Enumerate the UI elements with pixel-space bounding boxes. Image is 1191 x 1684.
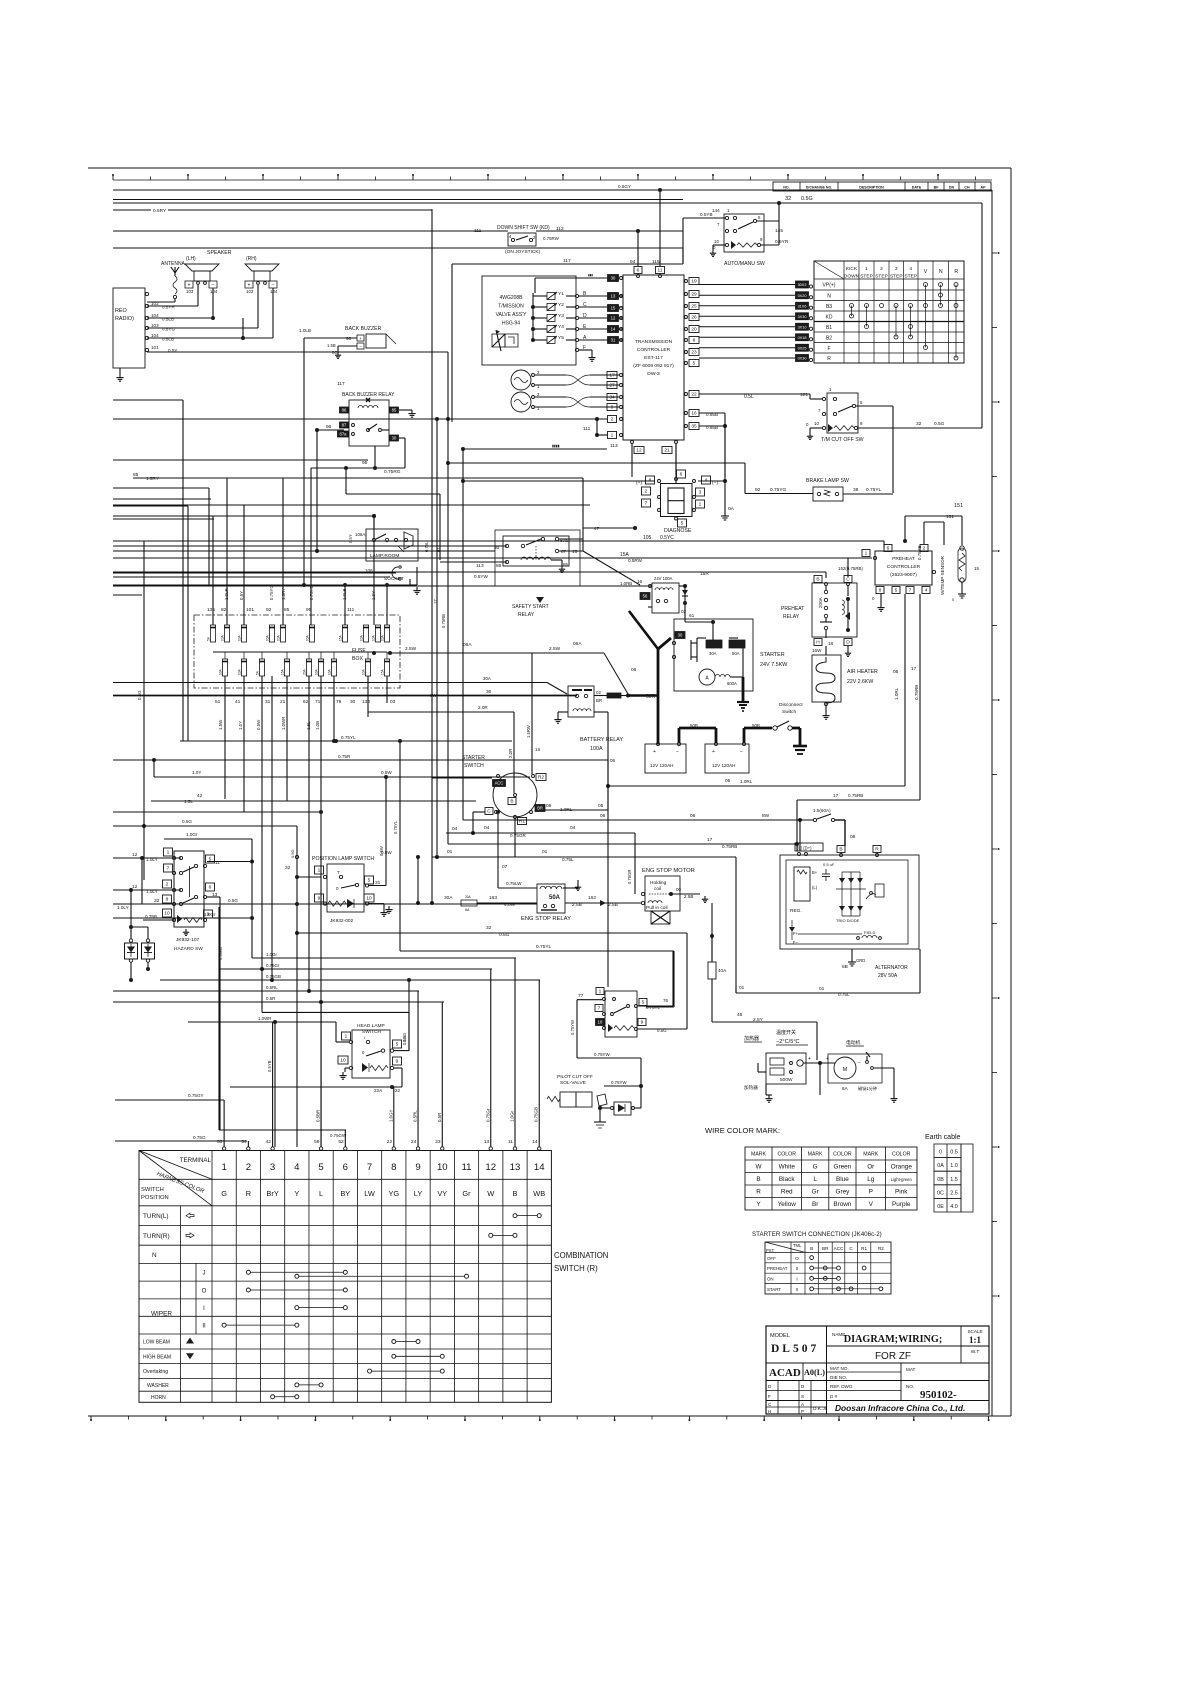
svg-text:T: T xyxy=(337,870,340,875)
speakers xyxy=(147,250,448,419)
svg-text:41: 41 xyxy=(235,699,241,705)
svg-text:07: 07 xyxy=(502,864,508,870)
svg-text:C: C xyxy=(768,1402,772,1407)
svg-text:+: + xyxy=(248,283,251,289)
svg-text:VALVE ASS'Y: VALVE ASS'Y xyxy=(496,312,527,318)
svg-text:24: 24 xyxy=(411,1139,417,1145)
kick down table xyxy=(699,261,964,363)
svg-text:0.75RG: 0.75RG xyxy=(384,469,401,475)
svg-text:34: 34 xyxy=(609,395,615,401)
svg-text:32: 32 xyxy=(285,865,291,871)
svg-text:0.5G: 0.5G xyxy=(499,932,510,938)
svg-text:LOW BEAM: LOW BEAM xyxy=(143,1340,170,1346)
svg-text:−: − xyxy=(858,1060,861,1066)
svg-text:V: V xyxy=(924,269,928,275)
svg-text:R: R xyxy=(954,269,958,275)
svg-text:ACAD: ACAD xyxy=(769,1367,801,1379)
svg-text:163: 163 xyxy=(489,895,497,901)
svg-text:1: 1 xyxy=(865,266,868,272)
svg-text:30A: 30A xyxy=(709,651,717,656)
svg-text:NO.: NO. xyxy=(783,186,789,190)
svg-text:111: 111 xyxy=(347,607,355,613)
svg-text:FUSE: FUSE xyxy=(352,648,366,654)
svg-text:6: 6 xyxy=(887,546,890,552)
svg-text:23: 23 xyxy=(691,350,697,356)
svg-text:0.75RB: 0.75RB xyxy=(848,793,863,798)
svg-text:10A: 10A xyxy=(266,634,270,641)
svg-text:0E: 0E xyxy=(937,1204,944,1210)
svg-text:10A: 10A xyxy=(238,634,242,641)
svg-text:Grey: Grey xyxy=(835,1189,850,1196)
svg-text:1.5L: 1.5L xyxy=(184,799,193,804)
svg-text:01: 01 xyxy=(447,849,453,855)
svg-text:R: R xyxy=(756,1189,761,1196)
svg-text:PREHEAT: PREHEAT xyxy=(767,1266,788,1271)
svg-text:32: 32 xyxy=(785,196,791,202)
svg-text:VP(+): VP(+) xyxy=(823,283,836,289)
svg-text:TML: TML xyxy=(793,1243,802,1248)
svg-text:BY: BY xyxy=(340,1189,350,1198)
svg-text:−2°C/5°C: −2°C/5°C xyxy=(776,1039,800,1045)
svg-text:加热器: 加热器 xyxy=(744,1035,759,1042)
svg-text:6: 6 xyxy=(209,885,212,891)
svg-text:15: 15 xyxy=(974,566,980,571)
svg-text:113: 113 xyxy=(610,443,618,449)
svg-text:2: 2 xyxy=(537,370,540,375)
svg-text:0A: 0A xyxy=(728,506,735,512)
svg-text:HAZARD SW: HAZARD SW xyxy=(174,946,203,952)
svg-text:02: 02 xyxy=(596,690,601,695)
svg-text:05: 05 xyxy=(725,778,731,784)
svg-text:P: P xyxy=(869,1189,873,1196)
svg-text:28V 50A: 28V 50A xyxy=(878,973,898,979)
svg-text:KD: KD xyxy=(826,314,833,320)
fuse box xyxy=(113,585,604,730)
svg-text:DL507: DL507 xyxy=(771,1343,819,1355)
svg-text:2: 2 xyxy=(246,1162,251,1173)
svg-text:1: 1 xyxy=(345,1034,348,1040)
svg-text:30A: 30A xyxy=(465,895,472,899)
svg-text:1.0LB: 1.0LB xyxy=(299,328,311,333)
svg-text:105: 105 xyxy=(643,535,652,541)
svg-text:J: J xyxy=(203,1271,206,1277)
svg-text:H: H xyxy=(816,640,820,646)
svg-text:95: 95 xyxy=(362,460,368,466)
svg-text:152(0.75RB): 152(0.75RB) xyxy=(838,566,863,571)
svg-text:22A: 22A xyxy=(374,1088,383,1093)
svg-text:10: 10 xyxy=(366,896,372,902)
svg-text:5: 5 xyxy=(693,361,696,367)
svg-text:VY: VY xyxy=(437,1189,447,1198)
svg-text:05: 05 xyxy=(546,803,552,809)
svg-text:Pink: Pink xyxy=(895,1189,908,1196)
svg-text:0.75YG: 0.75YG xyxy=(269,585,274,600)
svg-text:KICK: KICK xyxy=(846,266,858,272)
svg-text:D: D xyxy=(768,1384,772,1389)
eng stop motor xyxy=(627,833,708,924)
svg-text:6: 6 xyxy=(637,268,640,274)
svg-text:117: 117 xyxy=(563,258,571,264)
svg-text:18: 18 xyxy=(828,641,834,646)
svg-text:2: 2 xyxy=(611,417,614,423)
svg-text:DESCRIPTION: DESCRIPTION xyxy=(859,186,884,190)
svg-text:0.5G: 0.5G xyxy=(801,196,813,202)
svg-text:2.5W: 2.5W xyxy=(549,646,561,652)
svg-text:BrY: BrY xyxy=(266,1189,278,1198)
svg-text:BACK BUZZER RELAY: BACK BUZZER RELAY xyxy=(342,392,395,398)
svg-text:20A: 20A xyxy=(303,668,307,675)
svg-text:3: 3 xyxy=(270,1162,275,1173)
svg-text:10: 10 xyxy=(340,1058,346,1064)
svg-text:0.5LB: 0.5LB xyxy=(162,337,174,342)
svg-text:1.5(60A): 1.5(60A) xyxy=(813,808,831,813)
svg-text:0X30: 0X30 xyxy=(798,357,807,361)
svg-text:(LH): (LH) xyxy=(186,256,196,262)
svg-text:STEP: STEP xyxy=(860,274,873,280)
svg-text:2: 2 xyxy=(533,235,536,240)
svg-text:12: 12 xyxy=(132,852,138,858)
svg-text:40A: 40A xyxy=(718,968,727,973)
svg-text:N: N xyxy=(827,293,831,299)
svg-text:F: F xyxy=(827,346,830,352)
svg-text:RELAY: RELAY xyxy=(518,612,535,618)
svg-text:II: II xyxy=(202,1323,206,1329)
svg-text:EST-117: EST-117 xyxy=(644,355,663,361)
svg-text:5: 5 xyxy=(758,215,761,220)
svg-text:9: 9 xyxy=(396,1059,399,1065)
svg-text:0.5G: 0.5G xyxy=(934,421,945,427)
svg-text:1.0WR: 1.0WR xyxy=(258,1016,271,1021)
svg-text:DIE NO.: DIE NO. xyxy=(830,1375,847,1380)
svg-text:51: 51 xyxy=(215,699,221,705)
svg-text:−: − xyxy=(212,283,215,289)
starter switch connection table xyxy=(752,1231,891,1294)
svg-text:1:1: 1:1 xyxy=(969,1335,981,1345)
svg-text:42: 42 xyxy=(197,793,203,799)
svg-text:ACC: ACC xyxy=(495,781,504,786)
svg-text:Y5: Y5 xyxy=(558,335,564,341)
svg-text:1.0GY: 1.0GY xyxy=(388,1109,393,1122)
svg-text:9: 9 xyxy=(860,421,863,426)
room lamp and socket xyxy=(113,514,421,595)
svg-text:O: O xyxy=(795,1256,799,1261)
svg-text:8W: 8W xyxy=(762,813,770,819)
svg-text:10: 10 xyxy=(437,1162,448,1173)
svg-text:Y: Y xyxy=(756,1201,761,1208)
svg-text:0.5RL: 0.5RL xyxy=(266,985,278,990)
svg-text:0.75GR: 0.75GR xyxy=(510,833,527,838)
svg-text:12: 12 xyxy=(611,316,616,321)
wire top buses xyxy=(113,184,982,428)
svg-text:115: 115 xyxy=(652,259,660,265)
svg-text:0.75Gr: 0.75Gr xyxy=(266,963,280,968)
svg-text:1: 1 xyxy=(865,551,868,557)
svg-text:SWITCH: SWITCH xyxy=(141,1187,164,1193)
svg-text:H: H xyxy=(768,1409,771,1414)
svg-text:1.5W: 1.5W xyxy=(218,719,223,730)
svg-text:LW: LW xyxy=(364,1189,375,1198)
svg-text:1.0: 1.0 xyxy=(950,1163,958,1169)
svg-text:W.T: W.T xyxy=(971,1349,980,1355)
svg-text:0.75L: 0.75L xyxy=(838,992,850,997)
svg-text:Gr: Gr xyxy=(462,1189,471,1198)
svg-text:0.5BR: 0.5BR xyxy=(316,1110,321,1122)
svg-text:BACK BUZZER: BACK BUZZER xyxy=(345,326,382,332)
svg-text:10A: 10A xyxy=(381,634,385,641)
svg-text:9: 9 xyxy=(641,1020,644,1026)
svg-text:30: 30 xyxy=(611,276,616,281)
svg-text:01: 01 xyxy=(739,985,745,991)
svg-text:86: 86 xyxy=(342,408,347,413)
svg-text:600A: 600A xyxy=(727,681,737,686)
svg-text:12V 120AH: 12V 120AH xyxy=(712,763,736,768)
svg-text:20: 20 xyxy=(691,327,697,333)
svg-text:S: S xyxy=(801,1394,804,1399)
svg-text:04: 04 xyxy=(452,826,458,832)
svg-text:50A: 50A xyxy=(549,895,561,901)
svg-text:−: − xyxy=(272,283,275,289)
svg-text:B: B xyxy=(756,1176,760,1183)
svg-text:02: 02 xyxy=(681,609,687,614)
svg-text:0: 0 xyxy=(952,597,955,602)
svg-text:(ON JOYSTICK): (ON JOYSTICK) xyxy=(505,249,541,255)
svg-text:0X25: 0X25 xyxy=(798,346,807,350)
svg-text:W/TEMP SENSOR: W/TEMP SENSOR xyxy=(940,555,945,595)
svg-text:2.5W: 2.5W xyxy=(405,646,417,652)
diagnose connector xyxy=(446,426,745,534)
svg-text:I: I xyxy=(203,1306,205,1312)
svg-text:MARK: MARK xyxy=(751,1152,767,1158)
svg-text:0.5YB: 0.5YB xyxy=(267,1060,272,1072)
svg-text:Lg: Lg xyxy=(867,1176,875,1183)
svg-text:29: 29 xyxy=(691,292,697,298)
svg-text:C: C xyxy=(487,809,491,815)
svg-text:71: 71 xyxy=(315,699,321,705)
svg-text:W: W xyxy=(755,1163,762,1170)
svg-text:II: II xyxy=(796,1287,798,1292)
svg-text:3: 3 xyxy=(895,266,898,272)
svg-text:950102-: 950102- xyxy=(920,1389,957,1401)
svg-text:10A: 10A xyxy=(277,634,281,641)
svg-text:C: C xyxy=(846,577,850,583)
svg-text:1: 1 xyxy=(727,208,730,213)
svg-text:Earth cable: Earth cable xyxy=(925,1134,961,1141)
svg-text:B: B xyxy=(816,577,819,583)
svg-text:G: G xyxy=(221,1189,227,1198)
right zone marks xyxy=(954,252,1000,1297)
svg-text:CH: CH xyxy=(964,186,970,190)
svg-text:1.5RY: 1.5RY xyxy=(146,476,159,481)
svg-text:0.75YW: 0.75YW xyxy=(611,1080,627,1085)
svg-text:RELAY: RELAY xyxy=(783,614,800,620)
batteries and disconnect switch xyxy=(629,611,807,773)
svg-text:R1: R1 xyxy=(861,1246,867,1251)
svg-text:15: 15 xyxy=(572,549,578,555)
svg-text:31X6: 31X6 xyxy=(798,304,807,308)
svg-text:DOWN SHIFT SW (KD): DOWN SHIFT SW (KD) xyxy=(497,225,550,231)
svg-text:5A: 5A xyxy=(256,670,260,675)
svg-text:HEAD LAMP: HEAD LAMP xyxy=(357,1023,385,1029)
svg-text:85: 85 xyxy=(563,562,569,567)
svg-text:WASHER: WASHER xyxy=(147,1383,169,1389)
svg-text:TRIO DIODE: TRIO DIODE xyxy=(836,918,860,923)
svg-text:30: 30 xyxy=(392,436,397,441)
svg-text:WIPER: WIPER xyxy=(151,1311,172,1318)
svg-text:R: R xyxy=(246,1189,251,1198)
wire fuse drops xyxy=(113,676,540,1147)
svg-text:4WG208B: 4WG208B xyxy=(499,295,523,301)
svg-text:13: 13 xyxy=(510,1162,521,1173)
svg-text:17: 17 xyxy=(433,599,438,604)
svg-text:5: 5 xyxy=(860,400,863,405)
svg-text:D: D xyxy=(846,640,850,646)
svg-text:2: 2 xyxy=(880,266,883,272)
svg-text:Pull in coil: Pull in coil xyxy=(646,905,668,911)
svg-text:RADIO): RADIO) xyxy=(115,316,134,322)
svg-text:0.75LW: 0.75LW xyxy=(506,881,522,886)
svg-text:TURN(R): TURN(R) xyxy=(143,1233,170,1240)
svg-text:62: 62 xyxy=(303,699,309,705)
revision table strip xyxy=(773,182,991,191)
svg-text:0X18: 0X18 xyxy=(798,336,807,340)
svg-text:8A: 8A xyxy=(465,908,470,912)
svg-text:CONTROLLER: CONTROLLER xyxy=(887,564,921,570)
svg-text:0: 0 xyxy=(939,1150,942,1156)
combination table stub wires xyxy=(217,958,541,1150)
svg-text:1S: 1S xyxy=(535,747,540,752)
svg-text:REO: REO xyxy=(115,308,127,314)
svg-text:30: 30 xyxy=(486,689,492,695)
svg-text:DN: DN xyxy=(949,186,955,190)
svg-text:Holding: Holding xyxy=(650,880,667,886)
svg-text:AIR HEATER: AIR HEATER xyxy=(847,669,878,675)
svg-text:Gr: Gr xyxy=(812,1189,820,1196)
svg-text:F: F xyxy=(768,1394,771,1399)
svg-text:1: 1 xyxy=(699,502,702,508)
svg-text:9: 9 xyxy=(318,896,321,902)
svg-text:135: 135 xyxy=(207,607,215,613)
svg-text:II: II xyxy=(796,1266,798,1271)
svg-text:M: M xyxy=(843,1067,848,1073)
svg-text:12: 12 xyxy=(132,884,138,890)
svg-text:COMBINATION: COMBINATION xyxy=(554,1251,608,1260)
svg-text:HSG-94: HSG-94 xyxy=(502,321,520,327)
svg-text:1: 1 xyxy=(221,1162,226,1173)
svg-text:Black: Black xyxy=(779,1176,795,1183)
svg-text:76: 76 xyxy=(336,699,342,705)
svg-text:WIRE COLOR MARK:: WIRE COLOR MARK: xyxy=(705,1126,780,1135)
svg-text:05: 05 xyxy=(893,669,899,675)
svg-text:0.75RB: 0.75RB xyxy=(914,685,919,700)
svg-text:YG: YG xyxy=(388,1189,399,1198)
svg-text:500W: 500W xyxy=(780,1077,793,1083)
svg-text:HORN: HORN xyxy=(151,1395,166,1401)
svg-text:0.75R: 0.75R xyxy=(338,754,351,759)
svg-text:0.5W: 0.5W xyxy=(379,846,384,856)
svg-text:47: 47 xyxy=(594,526,600,532)
back buzzer xyxy=(299,326,396,585)
svg-text:4: 4 xyxy=(925,588,928,594)
svg-text:FIELD: FIELD xyxy=(864,930,875,935)
svg-text:−: − xyxy=(740,749,743,755)
svg-text:DIAGNOSE: DIAGNOSE xyxy=(664,528,692,534)
svg-text:104: 104 xyxy=(210,289,218,294)
svg-text:144: 144 xyxy=(712,208,720,213)
svg-text:10A: 10A xyxy=(238,668,242,675)
svg-text:0.75GR: 0.75GR xyxy=(627,870,632,884)
svg-text:CONTROLLER: CONTROLLER xyxy=(637,347,671,353)
svg-text:SCALE: SCALE xyxy=(967,1329,982,1334)
svg-text:7: 7 xyxy=(909,588,912,594)
svg-text:106: 106 xyxy=(365,568,373,573)
svg-text:L: L xyxy=(319,1189,323,1198)
svg-text:A0(L): A0(L) xyxy=(804,1368,825,1377)
svg-text:COLOR: COLOR xyxy=(892,1152,911,1158)
svg-text:8: 8 xyxy=(693,338,696,344)
svg-text:0.5YB: 0.5YB xyxy=(700,212,713,217)
svg-text:0.5: 0.5 xyxy=(950,1150,958,1156)
stereo radio unit xyxy=(113,288,177,381)
down shift switch xyxy=(432,225,683,422)
svg-text:1.0B: 1.0B xyxy=(315,721,320,730)
svg-text:0.75YW: 0.75YW xyxy=(570,1020,575,1035)
svg-text:50B: 50B xyxy=(690,723,698,728)
svg-text:17: 17 xyxy=(609,373,615,379)
svg-text:0.5RY: 0.5RY xyxy=(153,208,167,214)
svg-text:0.75GB: 0.75GB xyxy=(266,974,281,979)
svg-text:25: 25 xyxy=(691,304,697,310)
svg-text:15A: 15A xyxy=(381,668,385,675)
svg-text:T/M CUT OFF SW: T/M CUT OFF SW xyxy=(821,437,864,443)
svg-text:35: 35 xyxy=(691,424,697,430)
svg-text:F+: F+ xyxy=(793,931,799,936)
svg-text:TRANSMISSION: TRANSMISSION xyxy=(635,339,673,345)
svg-text:0.5YR: 0.5YR xyxy=(162,305,175,310)
svg-text:1.0RL: 1.0RL xyxy=(894,687,899,700)
svg-text:30X2: 30X2 xyxy=(798,283,807,287)
wire lower buses xyxy=(115,739,817,1147)
svg-text:12: 12 xyxy=(636,448,642,454)
svg-text:REG.: REG. xyxy=(790,908,802,914)
preheat controller xyxy=(113,522,936,800)
svg-text:3X30: 3X30 xyxy=(798,315,807,319)
svg-text:6A: 6A xyxy=(842,1086,849,1092)
svg-text:1.5B: 1.5B xyxy=(327,343,336,348)
svg-text:1.0Gr: 1.0Gr xyxy=(266,952,278,957)
svg-text:FOR ZF: FOR ZF xyxy=(875,1351,911,1362)
svg-text:86: 86 xyxy=(496,563,502,569)
svg-text:22: 22 xyxy=(395,1088,401,1093)
svg-text:4: 4 xyxy=(294,1162,300,1173)
svg-text:0.75GY: 0.75GY xyxy=(188,1093,204,1098)
svg-text:COLOR: COLOR xyxy=(778,1152,797,1158)
svg-text:11: 11 xyxy=(215,860,220,866)
svg-text:12: 12 xyxy=(485,1162,496,1173)
svg-text:32: 32 xyxy=(154,898,160,904)
svg-text:117: 117 xyxy=(337,381,345,387)
svg-text:PST: PST xyxy=(766,1248,775,1253)
svg-text:0.5RW: 0.5RW xyxy=(628,558,643,563)
svg-text:23: 23 xyxy=(435,1139,441,1145)
svg-text:T/MISSION: T/MISSION xyxy=(498,304,524,310)
svg-text:13: 13 xyxy=(611,294,616,299)
svg-text:8W: 8W xyxy=(430,693,437,698)
svg-text:100A: 100A xyxy=(590,746,603,752)
svg-text:2: 2 xyxy=(166,882,169,888)
svg-text:Disconnect: Disconnect xyxy=(779,702,803,708)
earth cable table xyxy=(925,1134,973,1212)
svg-text:0.75GW: 0.75GW xyxy=(330,1133,347,1138)
